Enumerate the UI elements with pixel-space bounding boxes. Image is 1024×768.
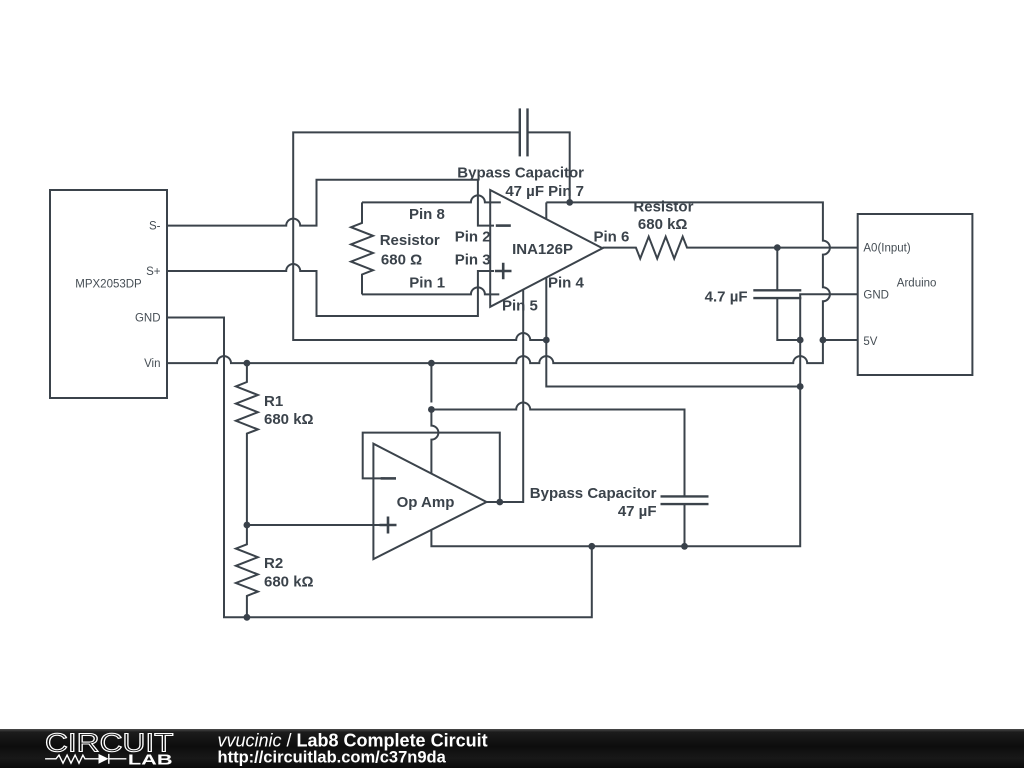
op-amp U2 triangle: [373, 444, 486, 559]
resistor R1 680k: [236, 363, 258, 525]
svg-text:LAB: LAB: [128, 752, 173, 768]
wire Pin 8: [362, 195, 501, 202]
U2 minus symbol: [381, 477, 396, 480]
svg-text:Pin 4: Pin 4: [548, 275, 585, 292]
svg-text:S-: S-: [149, 221, 161, 233]
svg-text:R1: R1: [264, 393, 283, 410]
wire 4.7uF top riser: [776, 248, 778, 291]
capacitor C1 bypass 47uF top right plate: [526, 108, 528, 156]
svg-text:A0(Input): A0(Input): [863, 243, 910, 255]
svg-text:680 Ω: 680 Ω: [381, 251, 422, 268]
capacitor C2 4.7uF plates: [753, 289, 801, 291]
svg-text:MPX2053DP: MPX2053DP: [75, 279, 142, 291]
svg-text:47 µF Pin 7: 47 µF Pin 7: [505, 183, 584, 200]
svg-text:5V: 5V: [863, 336, 877, 348]
svg-text:Pin 8: Pin 8: [409, 206, 445, 223]
wire op-amp feedback loop: [363, 433, 500, 502]
svg-text:Pin 2: Pin 2: [455, 229, 491, 246]
wire Arduino 5V pin: [823, 339, 858, 341]
svg-text:680 kΩ: 680 kΩ: [264, 574, 314, 591]
svg-text:Resistor: Resistor: [380, 232, 440, 249]
svg-text:http://circuitlab.com/c37n9da: http://circuitlab.com/c37n9da: [218, 749, 447, 767]
resistor R3 680 Ohm between Pin 8 and Pin 1: [351, 202, 373, 294]
wire op-amp output stub: [487, 501, 524, 503]
wire S- net: box to INA126P inverting input: [167, 180, 494, 226]
wire Vin / 5V supply net: [167, 202, 830, 363]
wire GND from MPX down and bottom ground bus: [167, 318, 592, 618]
svg-text:Pin 6: Pin 6: [594, 229, 630, 246]
wire V+ row 409 to bypass cap C3: [431, 403, 684, 497]
svg-text:Pin 3: Pin 3: [455, 251, 491, 268]
wire Pin 4 column down to GND row 386: [546, 278, 800, 387]
svg-text:GND: GND: [135, 313, 161, 325]
svg-text:Bypass Capacitor: Bypass Capacitor: [457, 164, 584, 181]
wire Pin 5 column down to op-amp output: [500, 290, 523, 502]
svg-text:680 kΩ: 680 kΩ: [264, 411, 314, 428]
U1 minus symbol: [496, 224, 511, 227]
wire Arduino GND pin to GND column: [431, 294, 857, 546]
svg-text:R2: R2: [264, 555, 283, 572]
svg-text:Pin 5: Pin 5: [502, 298, 538, 315]
Arduino box: [858, 214, 973, 375]
resistor R2 680k: [236, 525, 258, 617]
capacitor C1 bypass 47uF top left plate: [519, 108, 521, 156]
svg-text:Arduino: Arduino: [897, 277, 937, 289]
wire Pin 7 stub: [545, 202, 547, 219]
svg-text:Vin: Vin: [144, 358, 160, 370]
svg-text:INA126P: INA126P: [512, 241, 573, 258]
wire S+ net: box to INA126P non-inverting input: [167, 264, 494, 316]
wire 4.7uF bottom riser to GND column: [777, 298, 800, 340]
resistor R4 680k horizontal and A0 wire: [603, 237, 858, 259]
svg-text:GND: GND: [863, 289, 889, 301]
svg-text:Pin 1: Pin 1: [409, 275, 445, 292]
MPX2053DP box: [50, 190, 167, 398]
U1 plus symbol: [495, 263, 512, 280]
wire C3 bottom to GND row: [684, 504, 686, 546]
wire op-amp plus input from R1/R2 junction: [247, 524, 385, 526]
junction dots: [244, 360, 251, 367]
svg-text:Resistor: Resistor: [633, 198, 693, 215]
svg-text:Bypass Capacitor: Bypass Capacitor: [530, 485, 657, 502]
svg-text:680 kΩ: 680 kΩ: [638, 216, 688, 233]
wire outer loop: bypass cap left plate to GND row and Pin 4 column: [293, 132, 546, 340]
wire Pin 1: [362, 287, 499, 294]
svg-text:47 µF: 47 µF: [618, 503, 657, 520]
op-amp U1 INA126P triangle: [490, 190, 602, 307]
svg-text:S+: S+: [146, 266, 161, 278]
svg-text:Op Amp: Op Amp: [397, 494, 455, 511]
logo resistor zigzag and diode: [45, 754, 126, 764]
wire cap right plate to V+ row: [528, 132, 570, 202]
svg-text:4.7 µF: 4.7 µF: [705, 289, 748, 306]
U2 plus symbol: [380, 517, 397, 534]
svg-text:vvucinic / Lab8 Complete Circu: vvucinic / Lab8 Complete Circuit: [218, 731, 488, 751]
capacitor C3 bypass 47uF plates: [661, 495, 709, 497]
wire op-amp V+ from Vin row: [431, 363, 438, 473]
